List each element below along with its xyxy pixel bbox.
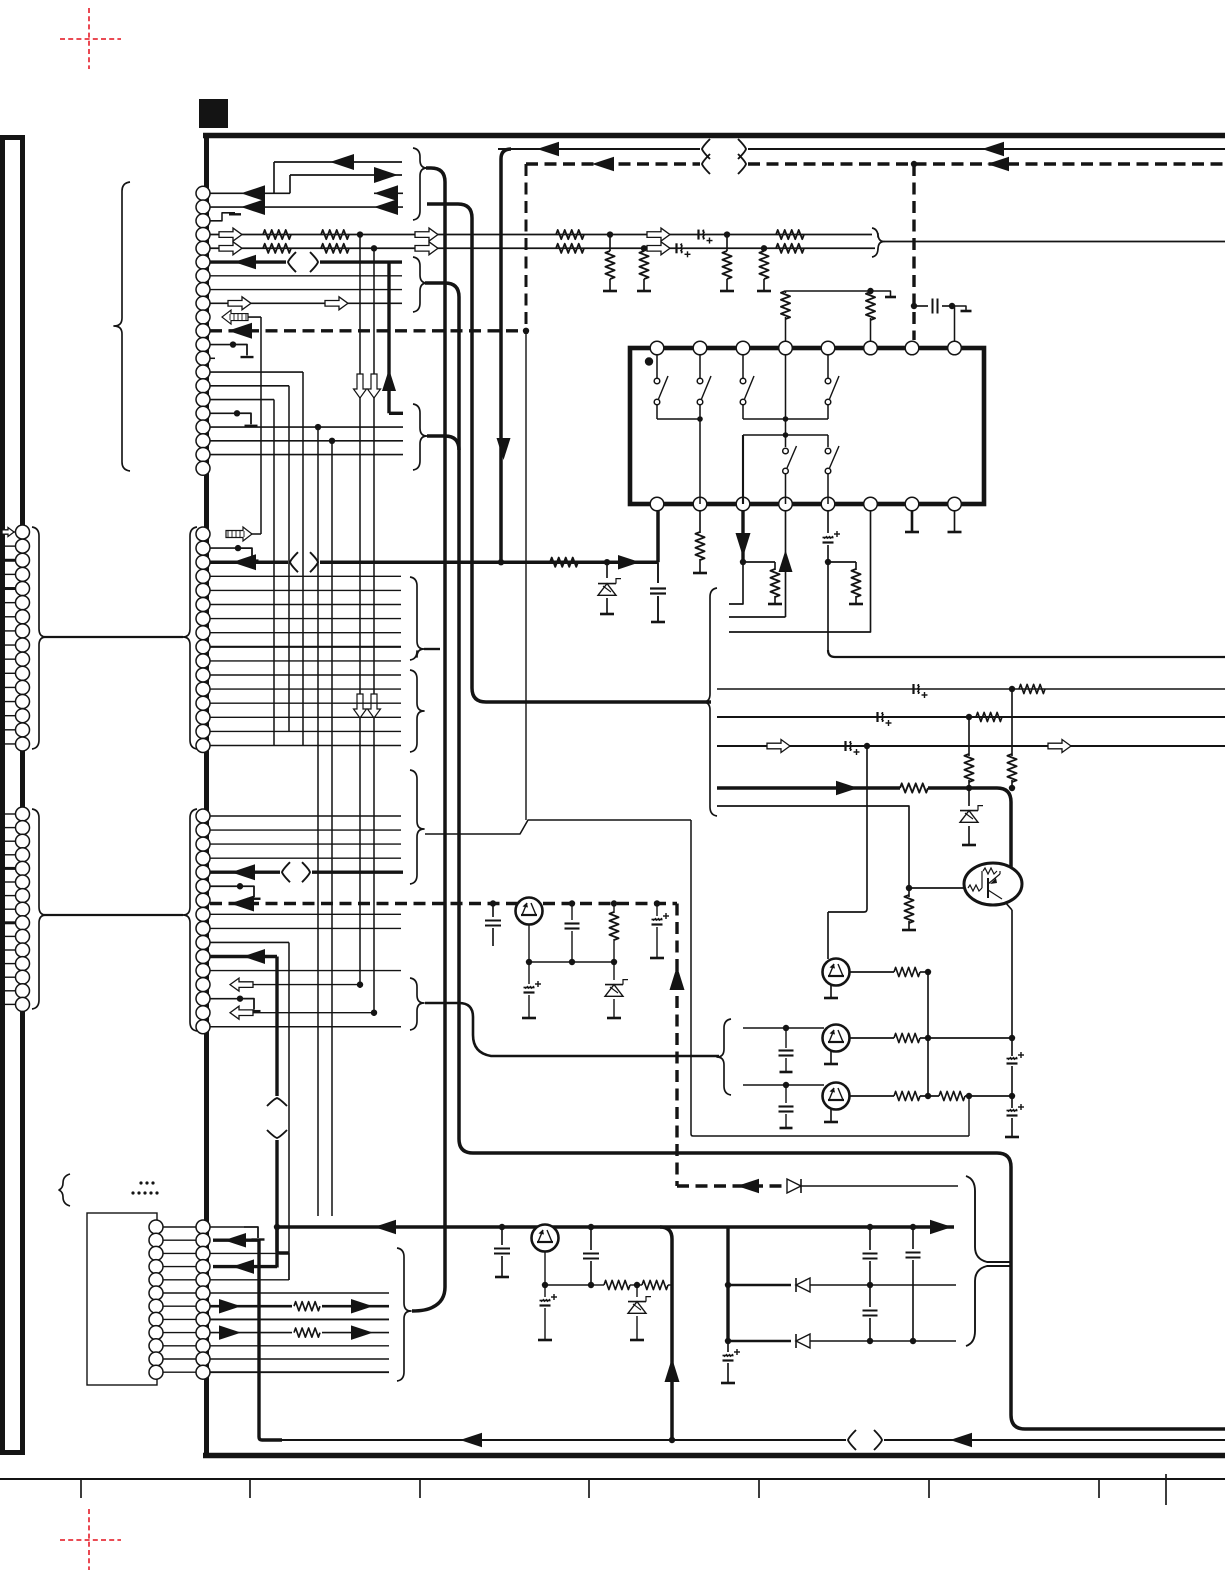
registration crosshair top-left — [60, 38, 121, 40]
brace G2 right upper — [410, 577, 424, 660]
arrowhead G4k8 b — [351, 1325, 373, 1340]
wire G4 k5 — [210, 1292, 389, 1294]
transistor Q5 on rail — [516, 898, 543, 925]
stub LG1 p7 — [0, 616, 16, 618]
switch S2 in IC — [699, 355, 701, 378]
cap x913 — [912, 1227, 914, 1249]
bottom ruler line — [0, 1478, 1225, 1480]
junction y717 x969 — [966, 714, 972, 720]
main connector pins G1 — [196, 186, 210, 200]
resistor G4k8 — [292, 1327, 322, 1339]
arrowhead down on bus x501 — [497, 438, 511, 460]
up-arrow corner wire — [389, 412, 403, 415]
wire y962 — [529, 961, 614, 963]
branch resistor x775 — [743, 561, 775, 563]
ground cap x658 — [651, 621, 665, 624]
wire G3 p14 ground stub — [210, 998, 240, 1000]
mesh vertical x274 — [273, 400, 275, 745]
stub LG1 p8 — [0, 630, 16, 632]
branch resistor x856 — [828, 561, 856, 563]
resistor on y562 — [550, 558, 578, 567]
IC pin8 ground stub — [954, 511, 956, 531]
hollow arrow G3p15 — [230, 1006, 253, 1019]
switch S4 in IC — [827, 355, 829, 378]
wire G1 p3 stub — [210, 213, 235, 221]
fan wire y746 — [717, 745, 1225, 747]
wire G1 p7 — [210, 275, 402, 277]
wire G1 p1 — [210, 192, 290, 194]
wire: return rail y149 — [498, 148, 700, 150]
fan wire y689 — [717, 688, 1225, 690]
cap x572 on rail — [569, 900, 575, 906]
feed drop x691 — [690, 820, 692, 1134]
junction dashed x526 — [523, 328, 529, 334]
hollow arrow p9 #2 — [325, 297, 348, 310]
wire G2 p7 — [210, 618, 401, 620]
wire G3 p7 dashed rail y903 — [210, 902, 677, 905]
grouping bracket right lower — [966, 1266, 1011, 1346]
hollow arrow y746 #1 — [767, 740, 790, 753]
wire G4 k7 — [210, 1318, 389, 1320]
resistor y689 — [1019, 684, 1045, 693]
junction p5 x374 — [371, 245, 377, 251]
pin5 wire to right edge y657 — [828, 650, 1225, 657]
mesh vertical x289a — [288, 386, 290, 731]
zener x614 — [613, 962, 615, 980]
resistor y1285 #1 — [604, 1280, 630, 1289]
wire G2 p6 — [210, 604, 401, 606]
wire G3-LB2 link y915 — [44, 914, 183, 916]
ruler tick 6 — [928, 1480, 930, 1498]
pull-down resistor x727 — [726, 235, 728, 251]
mesh x289c — [288, 1253, 290, 1280]
resistor y717 — [976, 712, 1002, 721]
wire G3 p15 hollow arrow y1016 — [236, 1012, 374, 1014]
wire G1 p16 — [210, 399, 274, 401]
stub LG2 p14 — [0, 990, 16, 992]
junction p5 x764 — [761, 245, 767, 251]
transistor Q2 — [823, 1025, 850, 1052]
IC pin-1 index dot — [645, 357, 653, 365]
wire y162 — [274, 161, 402, 163]
cap x502 — [501, 1227, 503, 1245]
arrowhead rail y149 left — [537, 142, 559, 157]
break G2p3 — [290, 552, 298, 572]
wire G2-LB1 link y637 — [44, 636, 183, 638]
stub LG2 p7 — [0, 895, 16, 897]
Q3 emitter ground — [830, 1109, 832, 1121]
wire G2 p2 ground stub — [210, 547, 238, 549]
arrowhead y788 — [836, 781, 858, 796]
bottom return wire y1440 — [262, 1439, 846, 1441]
wire G3 p9 — [210, 927, 401, 929]
ground zener x969 — [962, 844, 976, 847]
junction y1227 x870 — [867, 1224, 873, 1230]
Q3 base cap — [785, 1085, 787, 1103]
cap x870 upper — [869, 1227, 871, 1250]
wire y175 — [290, 174, 402, 176]
switch S6 in IC — [827, 435, 829, 447]
thick corner into dtr — [997, 788, 1011, 868]
wire G3 p2 — [210, 829, 401, 831]
wire G3 p12 — [210, 970, 401, 972]
resistor R on p4 #4 — [776, 230, 804, 239]
left page-edge border — [0, 137, 5, 1453]
ground x764 — [757, 290, 771, 293]
switch S5 in IC — [785, 435, 787, 447]
junction p4 x610 — [607, 231, 613, 237]
resistor G4k6 — [292, 1300, 322, 1312]
hollow arrow p5 #2 — [415, 242, 438, 255]
wire G3 p4 — [210, 857, 401, 859]
arrowhead rail y149 right — [982, 142, 1004, 157]
wire G2 p16 — [210, 745, 401, 747]
wire G2 p12 — [210, 688, 401, 690]
wire y291 above IC — [786, 290, 871, 292]
stub LG1 p10 — [0, 658, 16, 660]
stub LG1 p13 — [0, 701, 16, 703]
junction y689 x1012 — [1009, 686, 1015, 692]
pull-down resistor x644 — [643, 248, 645, 251]
stub LG2 p1 — [0, 813, 16, 815]
arrowhead p2 b — [374, 199, 398, 215]
IC feed riser x658 — [656, 505, 660, 562]
IC pin5 branch w/ elec cap — [827, 511, 829, 533]
wire G1 p10 (hatched arrow line) — [226, 316, 261, 318]
stub LG2 p8 — [0, 908, 16, 910]
arrowhead y162 — [330, 154, 354, 170]
wire G3 p11 thick y959 — [210, 955, 277, 958]
brace LB1 — [32, 527, 46, 749]
ruler tick 5 — [758, 1480, 760, 1498]
tiny hollow arrow LG1 p1 — [2, 528, 14, 537]
wire G1 p8 — [210, 289, 402, 291]
wire G2 p5 — [210, 589, 401, 591]
arrowhead y1186 — [737, 1179, 759, 1194]
resistor R on p4 #3 — [556, 230, 584, 239]
wire G1 p18 — [210, 426, 403, 428]
switch S1 in IC — [656, 355, 658, 378]
Q6 emitter — [544, 1251, 546, 1285]
elec cap x1012 lower — [1007, 1110, 1018, 1112]
IC pin6 wire to brace — [729, 511, 871, 632]
wire into dtr base — [909, 887, 966, 889]
hollow arrow y746 #2 — [1048, 740, 1071, 753]
module pins left — [149, 1220, 163, 1234]
registration crosshair bottom-left — [60, 1539, 121, 1541]
wire G2 p10 — [210, 660, 401, 662]
zener below y788 — [968, 788, 970, 806]
junction dashed x914 — [911, 161, 917, 167]
IC pin3 down arrow branch — [741, 511, 744, 560]
section marker square — [199, 99, 228, 128]
wire G4 k9 — [210, 1345, 389, 1347]
wire G2 p4 — [210, 575, 401, 577]
junction y746 x867 — [864, 743, 870, 749]
junction y1341 x870 — [867, 1338, 873, 1344]
pull-down resistor x610 — [609, 235, 611, 251]
bus B x445 (from brace C? top y202) — [412, 168, 445, 1311]
wire G1 p12 ground stub — [210, 344, 233, 346]
stub LG2 p4 — [0, 854, 16, 856]
stub LG1 p15 — [0, 729, 16, 731]
stub from brace — [424, 648, 440, 650]
IC U1 body — [630, 348, 984, 504]
left connector pins LG1 — [16, 525, 30, 539]
sense line x526 — [525, 334, 527, 820]
dashed rail corner x677 — [675, 904, 678, 1187]
Q3 collector wire — [849, 1095, 894, 1097]
pin8 riser — [954, 306, 956, 341]
left partial box border — [20, 135, 25, 1455]
junction y788 x969 — [966, 785, 972, 791]
brace join p4/p5 to single line — [872, 228, 884, 257]
dashed bus vertical x526 upper — [525, 164, 528, 331]
elec cap x529 — [528, 962, 530, 984]
stub LG2 p15 — [0, 1003, 16, 1005]
dashed bus vertical x914 — [912, 164, 915, 340]
elec cap inline y717 — [876, 712, 878, 722]
stub LG2 p6 — [0, 881, 16, 883]
bus C x459 trunk — [459, 297, 1225, 1429]
transistor Q3 — [823, 1083, 850, 1110]
main block left border / connector spine — [204, 133, 209, 1458]
stub LG1 p4 — [0, 573, 16, 575]
wire G4 k10 — [210, 1358, 389, 1360]
brace G3 right lower (F) — [410, 978, 424, 1030]
arrowhead p11 — [228, 323, 252, 339]
double down arrow b2 — [368, 694, 381, 718]
mesh vertical x360 (w/ down arrows) — [359, 235, 361, 988]
arrowhead dashed y164 #2 — [987, 157, 1009, 172]
wire G3 p5 thick arrow y872 — [210, 871, 280, 874]
stub LG2 p9 — [0, 921, 16, 924]
zener diode at x607 — [606, 562, 608, 578]
Q2 base wire y1028 — [743, 1027, 824, 1029]
mesh vertical x332 — [331, 441, 333, 1216]
resistor x614 on rail — [611, 900, 617, 906]
stub LG2 p3 — [0, 840, 16, 842]
wire G1 p5 (resistor line) — [210, 247, 875, 249]
main connector pins G2 — [196, 527, 210, 541]
drop x259 — [259, 1240, 282, 1440]
collector feed wire y831 — [425, 820, 691, 834]
brace G2 left — [183, 527, 197, 749]
elec cap inline y689 — [912, 684, 914, 694]
stub LG1 p16 — [0, 743, 16, 745]
hatched arrow G2p1 — [226, 527, 252, 541]
wire G2 p8 — [210, 632, 401, 634]
wire G2 p13 — [210, 702, 401, 704]
divider resistor x969 (y717-y788) — [968, 717, 970, 756]
stub LG1 p6 — [0, 602, 16, 604]
dashed bus x526 mid — [524, 331, 527, 334]
wire G4 k1 arrow — [213, 1238, 259, 1241]
arrowhead y1440 #2 — [950, 1433, 972, 1448]
junction x672 y1440 — [669, 1437, 675, 1443]
resistor above IC pin6 — [870, 291, 872, 294]
stub LG1 p9 — [0, 644, 16, 646]
main connector pins G3 — [196, 809, 210, 823]
ground zener x607 — [600, 613, 614, 616]
resistor R on p5 #1 — [263, 244, 291, 253]
cap x493 on rail — [490, 900, 496, 906]
pull-down resistor x764 — [763, 248, 765, 251]
wire G4 k0 ground stub — [210, 1226, 244, 1228]
wire G3 p6 ground stub — [210, 885, 240, 887]
IC pin7 ground stub — [911, 511, 914, 531]
ground x644 — [637, 290, 651, 293]
wire tee p1 up x274 — [273, 162, 275, 193]
arrowhead p1 b — [374, 185, 398, 201]
ground x727 — [720, 290, 734, 293]
junction p5 x644 — [641, 245, 647, 251]
base junction x909 — [906, 885, 912, 891]
stub LG2 p11 — [0, 949, 16, 951]
arrowhead G4k6 b — [351, 1299, 373, 1314]
stub LG1 p5 — [0, 587, 16, 590]
elec cap x545 — [544, 1285, 546, 1297]
hollow arrow p5 #3 — [647, 242, 670, 255]
stub LG1 p2 — [0, 545, 16, 547]
resistor y788 — [900, 783, 928, 792]
junction y1227 x913 — [910, 1224, 916, 1230]
wire G2 p1 hatched — [248, 533, 261, 535]
mesh vertical x374 — [373, 248, 375, 1016]
arrowhead G4k6 a — [219, 1299, 241, 1314]
wire y1285 box — [728, 1284, 791, 1287]
hatched arrow p10 — [222, 310, 248, 324]
hollow arrow p4 — [219, 228, 242, 241]
junction y1285 x870 — [867, 1282, 873, 1288]
break x277 lower — [267, 1130, 287, 1138]
wire tee p1 up x290 — [289, 175, 291, 193]
hollow arrow p5 — [219, 242, 242, 255]
wire G2 p14 — [210, 716, 401, 718]
arrowhead y1440 #1 — [460, 1433, 482, 1448]
small left brace module — [59, 1174, 70, 1206]
junction caps y1227 — [499, 1224, 505, 1230]
hollow arrow p9 #1 — [228, 297, 251, 310]
mid rail left drop to pin3 bottom — [742, 435, 744, 504]
ruler tick 4 — [588, 1480, 590, 1498]
wire G4 k2 loop — [210, 1252, 289, 1254]
main block top border — [203, 133, 1225, 139]
digital transistor Q-dtr (oval) — [964, 863, 1022, 905]
brace trio bases — [717, 1019, 731, 1095]
wire G2 p3 main thick y562 — [210, 560, 288, 564]
double down arrow a1 — [354, 374, 367, 398]
arrowhead y1227 left — [374, 1220, 396, 1235]
ruler tick 7 — [1098, 1480, 1100, 1498]
wire G1 p19 — [210, 440, 403, 442]
break x277 upper — [267, 1098, 287, 1106]
stub LG1 p1 — [0, 531, 16, 533]
arrowhead G3p5 — [231, 864, 255, 880]
box left riser x728 — [726, 1227, 729, 1341]
fan wire y806 — [717, 806, 909, 886]
main block bottom border — [203, 1453, 1225, 1459]
main connector pins G4 right — [196, 1220, 210, 1234]
wire y1341 box — [728, 1340, 791, 1343]
ground x1012 — [1005, 1136, 1019, 1139]
left connector pins LG2 — [16, 807, 30, 821]
grouping bracket right upper — [966, 1176, 1011, 1262]
elec cap inline y746 — [844, 741, 846, 751]
stub LG2 p5 — [0, 867, 16, 870]
wire G2 p11 — [210, 674, 401, 676]
stub LG1 p11 — [0, 672, 16, 674]
wire G4 k6 thick arrows — [210, 1305, 389, 1308]
cap x591 — [590, 1227, 592, 1250]
wire G4 k11 — [210, 1371, 389, 1373]
decoupling cap x658 — [657, 562, 659, 583]
elec cap x728 — [727, 1341, 729, 1352]
break p6 — [288, 252, 296, 272]
wire y1285 — [545, 1284, 591, 1286]
wire G1 p17 + ground stub — [210, 412, 237, 414]
brace G3 right upper (E) — [410, 770, 424, 884]
wire G3 p13 hollow arrow y988 — [236, 984, 360, 986]
junction y562 x607 — [604, 559, 610, 565]
wire G2 p9 — [210, 646, 401, 648]
wire G1 p20 — [210, 454, 403, 456]
fan wire y788 thick — [717, 786, 900, 790]
arrowhead dashed y164 #1 — [592, 157, 614, 172]
up arrow x672 — [665, 1358, 680, 1382]
electrolytic cap inline p4 — [697, 230, 699, 240]
bus A x472 (from arrows brace) — [427, 204, 711, 702]
wire G3 p3 — [210, 843, 401, 845]
wire G1 p14 — [210, 371, 303, 373]
bus D x473 (from brace F y1003) — [425, 1003, 719, 1056]
thick corner braceC to bus — [425, 283, 459, 297]
wire G1 p15 — [210, 385, 289, 387]
ruler tick 3 — [419, 1480, 421, 1498]
big left brace G1 — [114, 182, 130, 471]
wire G1 p13 stub — [210, 357, 215, 359]
ground hook cap — [952, 306, 966, 310]
IC top pins — [650, 341, 664, 355]
junction y1341 x913 — [910, 1338, 916, 1344]
stub LG2 p12 — [0, 963, 16, 965]
Q5 emitter — [528, 924, 530, 962]
thin wire y1186 tail — [801, 1185, 958, 1187]
wire G1 p2 — [210, 206, 403, 208]
brace G4 right — [397, 1248, 411, 1381]
transistor Q1 — [827, 912, 829, 959]
riser x277 with breaks — [275, 957, 278, 1097]
dtr emitter drop — [1005, 902, 1012, 910]
up arrow on dashed x677 — [670, 966, 685, 990]
wire G1 p4 (resistor line) — [210, 234, 872, 236]
base resistor x909 — [908, 888, 910, 897]
resistor R on p4 #1 — [263, 230, 291, 239]
stub LG1 p14 — [0, 715, 16, 717]
bus C x459 (from brace D y436) — [427, 436, 459, 450]
zener x637 — [632, 1284, 642, 1286]
break y1440 — [848, 1430, 856, 1450]
wire G3 p16 — [210, 1026, 401, 1028]
IC pin4 up arrow branch — [785, 511, 787, 617]
resistor R on p5 #2 — [321, 244, 349, 253]
mesh vertical x318 — [317, 427, 319, 1216]
arrowhead y175 right — [374, 167, 398, 183]
resistor R on p5 #4 — [776, 244, 804, 253]
IC pin2 resistor to ground — [699, 511, 701, 533]
arrowhead G3p7 — [230, 896, 254, 912]
stub LG2 p10 — [0, 935, 16, 937]
